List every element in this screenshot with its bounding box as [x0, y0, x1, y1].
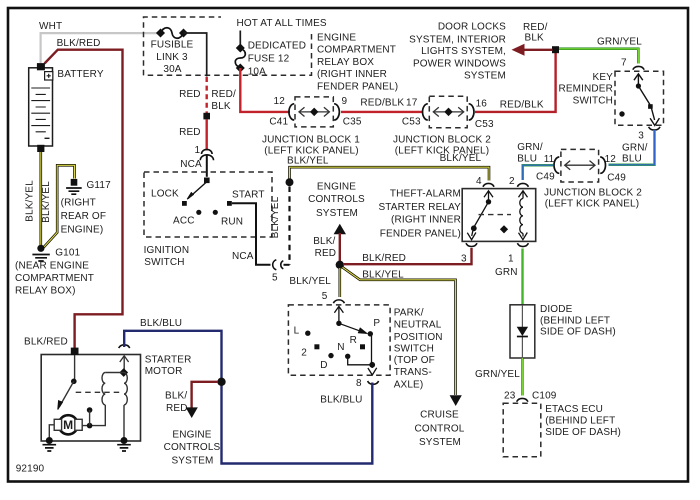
label (RIGHT REAR OF ENGINE)	[61, 198, 107, 236]
wire RED/BLK junction block 1 to junction block 2	[341, 111, 422, 113]
svg-text:COMPARTMENT: COMPARTMENT	[15, 273, 94, 284]
svg-text:NCA: NCA	[232, 251, 254, 262]
svg-text:BLK/YEL: BLK/YEL	[25, 180, 36, 222]
svg-text:P: P	[373, 318, 380, 329]
label RED/BLK (fuse drop)	[211, 89, 236, 112]
label C41	[269, 117, 288, 128]
svg-text:REAR OF: REAR OF	[61, 211, 107, 222]
svg-text:KEY: KEY	[593, 72, 614, 83]
splice node on RED wire	[203, 113, 210, 120]
svg-text:CONTROLS: CONTROLS	[308, 194, 365, 205]
junction block 2 C49	[554, 149, 605, 182]
label M (motor)	[63, 418, 73, 432]
label BLK/YEL (rotated, G117 wire)	[41, 181, 52, 223]
svg-text:DOOR LOCKS: DOOR LOCKS	[438, 21, 506, 32]
svg-text:ENGINE: ENGINE	[172, 429, 211, 440]
wire BLK/YEL dashed to connector 5	[288, 187, 290, 265]
label DIODE (BEHIND LEFT SIDE OF DASH)	[540, 304, 616, 337]
svg-text:RELAY BOX): RELAY BOX)	[15, 285, 76, 296]
svg-text:RED: RED	[179, 127, 201, 138]
svg-text:BLK/BLU: BLK/BLU	[140, 318, 182, 329]
wire WHT battery to fusible link	[41, 33, 161, 63]
label BLK/RED (top)	[57, 38, 101, 49]
wire BLK/YEL node to cruise control system	[343, 267, 456, 395]
label R	[350, 335, 357, 346]
label (NEAR ENGINE COMPARTMENT RELAY BOX)	[15, 260, 94, 296]
ignition switch	[144, 172, 272, 237]
label C53 (right)	[475, 119, 494, 130]
svg-text:4: 4	[476, 176, 482, 187]
label WHT	[39, 21, 62, 32]
label ACC	[173, 215, 195, 226]
svg-text:M: M	[63, 418, 73, 432]
wire BLK/RED node to theft-alarm relay pin 3	[343, 248, 472, 264]
svg-text:BLK: BLK	[525, 33, 545, 44]
svg-text:IGNITION: IGNITION	[144, 245, 190, 256]
svg-text:3: 3	[638, 131, 644, 142]
label BLK/BLU (below P/N switch)	[320, 395, 362, 406]
label 3 (pin)	[638, 131, 644, 142]
svg-text:FENDER PANEL): FENDER PANEL)	[380, 228, 461, 239]
label 12 (pin)	[274, 96, 286, 107]
svg-text:RUN: RUN	[221, 216, 243, 227]
wire GRN/YEL node to key reminder switch pin 7	[559, 49, 638, 64]
svg-text:CONTROLS: CONTROLS	[164, 442, 221, 453]
svg-text:SIDE OF DASH): SIDE OF DASH)	[545, 427, 621, 438]
label 7 (pin)	[621, 58, 627, 69]
wire RED solid segment	[205, 119, 207, 150]
label ENGINE COMPARTMENT RELAY BOX (RIGHT INNER FENDER PANEL)	[317, 32, 398, 92]
starter motor	[41, 345, 140, 441]
svg-text:C109: C109	[532, 390, 557, 401]
label PARK/ NEUTRAL POSITION SWITCH (TOP OF TRANS-AXLE)	[394, 307, 443, 390]
svg-text:L: L	[294, 326, 300, 337]
svg-text:FENDER PANEL): FENDER PANEL)	[317, 81, 398, 92]
svg-text:BLK: BLK	[211, 101, 231, 112]
svg-text:BLU: BLU	[622, 153, 642, 164]
svg-text:BLK/YEL: BLK/YEL	[289, 276, 331, 287]
svg-text:POSITION: POSITION	[394, 332, 443, 343]
label JUNCTION BLOCK 2 (LEFT KICK PANEL)	[393, 134, 491, 156]
label FUSIBLE LINK 3 30A	[151, 40, 194, 76]
svg-text:CRUISE: CRUISE	[420, 409, 459, 420]
svg-text:THEFT-ALARM: THEFT-ALARM	[390, 188, 461, 199]
svg-text:R: R	[350, 335, 357, 346]
node BLK/RED BLK/YEL junction	[336, 261, 344, 269]
wire BLK/YEL node to park/neutral switch pin 5	[338, 268, 341, 297]
svg-text:10A: 10A	[248, 67, 266, 78]
svg-text:1: 1	[508, 253, 514, 264]
svg-text:BATTERY: BATTERY	[57, 69, 103, 80]
svg-text:NCA: NCA	[180, 159, 202, 170]
wire GRN/BLU C49 to theft-alarm relay pin 2	[523, 165, 554, 180]
label 23 (pin)	[504, 390, 516, 401]
svg-text:LOCK: LOCK	[151, 188, 179, 199]
svg-text:7: 7	[621, 58, 627, 69]
label GRN/YEL	[597, 36, 642, 47]
label BLK/YEL (rotated, battery wire)	[25, 180, 36, 222]
node BLK/YEL junction at engine controls	[286, 178, 294, 186]
label STARTER MOTOR	[145, 354, 192, 377]
wire GRN/YEL diode to ETACS C109	[521, 358, 523, 396]
svg-text:JUNCTION BLOCK 1: JUNCTION BLOCK 1	[262, 134, 360, 145]
svg-text:5: 5	[272, 273, 278, 284]
svg-text:JUNCTION BLOCK 2: JUNCTION BLOCK 2	[544, 188, 642, 199]
svg-text:5: 5	[322, 291, 328, 302]
svg-text:BLU: BLU	[517, 154, 537, 165]
svg-text:STARTER: STARTER	[145, 354, 192, 365]
label C35	[343, 117, 362, 128]
label 3 (relay pin)	[461, 253, 467, 264]
svg-text:9: 9	[342, 96, 348, 107]
connector 23 C109	[517, 398, 528, 401]
label 12 (C49 pin)	[605, 154, 617, 165]
label BLK/ RED (mid)	[313, 236, 336, 259]
svg-text:RED: RED	[166, 403, 188, 414]
svg-text:SWITCH: SWITCH	[573, 96, 613, 107]
label RED (upper)	[179, 89, 201, 100]
label CRUISE CONTROL SYSTEM	[415, 409, 465, 448]
svg-text:WHT: WHT	[39, 21, 62, 32]
ground at starter motor right	[117, 437, 131, 451]
svg-text:GRN/: GRN/	[622, 142, 648, 153]
label L	[294, 326, 300, 337]
svg-text:HOT AT ALL TIMES: HOT AT ALL TIMES	[237, 18, 327, 29]
junction block 1 C41/C35	[289, 97, 339, 127]
label GRN/ BLU (left of C49)	[517, 142, 543, 165]
svg-text:C49: C49	[536, 171, 555, 182]
svg-text:NEUTRAL: NEUTRAL	[394, 319, 442, 330]
svg-text:D: D	[320, 360, 327, 371]
svg-text:BLK/YEL: BLK/YEL	[440, 153, 482, 164]
svg-text:17: 17	[406, 98, 418, 109]
svg-text:BLK/: BLK/	[313, 236, 335, 247]
svg-text:C49: C49	[607, 173, 626, 184]
svg-text:AXLE): AXLE)	[394, 380, 424, 391]
svg-text:SYSTEM: SYSTEM	[171, 455, 213, 466]
svg-text:GRN/YEL: GRN/YEL	[475, 369, 520, 380]
svg-text:SYSTEM, INTERIOR: SYSTEM, INTERIOR	[409, 34, 506, 45]
svg-text:RED/BLK: RED/BLK	[500, 99, 544, 110]
label ETACS ECU (BEHIND LEFT SIDE OF DASH)	[545, 404, 621, 438]
diode	[510, 305, 535, 358]
svg-text:(TOP OF: (TOP OF	[394, 355, 435, 366]
svg-text:23: 23	[504, 390, 516, 401]
svg-text:GRN: GRN	[495, 267, 518, 278]
svg-text:(RIGHT INNER: (RIGHT INNER	[391, 214, 461, 225]
key reminder switch	[615, 66, 664, 130]
svg-text:START: START	[232, 189, 265, 200]
svg-text:BLK/RED: BLK/RED	[362, 253, 406, 264]
label 11 (C49 pin)	[544, 154, 555, 165]
svg-text:TRANS-: TRANS-	[394, 367, 432, 378]
svg-text:GRN/YEL: GRN/YEL	[597, 36, 642, 47]
label G117	[87, 180, 112, 191]
svg-text:ENGINE: ENGINE	[317, 182, 356, 193]
svg-text:RED/BLK: RED/BLK	[360, 98, 404, 109]
label C49 (right)	[607, 173, 626, 184]
svg-text:2: 2	[509, 176, 515, 187]
svg-text:(BEHIND LEFT: (BEHIND LEFT	[545, 415, 615, 426]
label BLK/YEL (bus left)	[287, 156, 329, 167]
label ENGINE CONTROLS SYSTEM (lower)	[164, 429, 221, 466]
svg-text:SIDE OF DASH): SIDE OF DASH)	[540, 326, 616, 337]
label ENGINE CONTROLS SYSTEM (upper)	[308, 182, 365, 220]
ground G117	[66, 179, 82, 194]
svg-text:BLK/YEL: BLK/YEL	[287, 156, 329, 167]
svg-text:2: 2	[301, 348, 307, 359]
label IGNITION SWITCH	[144, 245, 190, 268]
svg-text:MOTOR: MOTOR	[145, 366, 183, 377]
label 5 (P/N pin)	[322, 291, 328, 302]
connector 1 at ignition switch	[200, 149, 213, 176]
label BLK/YEL (rotated, dashed wire)	[270, 196, 281, 238]
svg-text:ENGINE): ENGINE)	[61, 224, 104, 235]
label NCA (lower)	[232, 251, 254, 262]
svg-text:(BEHIND LEFT: (BEHIND LEFT	[540, 315, 610, 326]
svg-text:BLK/: BLK/	[165, 390, 187, 401]
wire BLK/YEL G117 to G101	[44, 165, 75, 247]
label HOT AT ALL TIMES	[237, 18, 327, 29]
svg-text:RED/: RED/	[211, 89, 236, 100]
wire fusible link to RED drop	[184, 33, 207, 77]
label NCA (upper)	[180, 159, 202, 170]
theft-alarm starter relay	[462, 183, 536, 246]
svg-text:C53: C53	[402, 117, 421, 128]
svg-text:11: 11	[544, 154, 555, 165]
svg-text:(RIGHT: (RIGHT	[61, 198, 96, 209]
wire BLK/YEL battery negative to G101	[39, 152, 42, 246]
svg-text:JUNCTION BLOCK 2: JUNCTION BLOCK 2	[393, 134, 491, 145]
svg-text:RED: RED	[315, 248, 337, 259]
svg-text:3: 3	[461, 253, 467, 264]
node BLK/BLU junction to engine controls	[217, 378, 225, 386]
svg-text:C41: C41	[269, 117, 288, 128]
svg-text:92190: 92190	[16, 464, 45, 475]
label RED/BLK (right)	[500, 99, 544, 110]
svg-text:(LEFT KICK PANEL): (LEFT KICK PANEL)	[545, 198, 639, 209]
fusible link 3	[156, 28, 188, 39]
arrow down to cruise control system	[450, 395, 462, 406]
svg-text:PARK/: PARK/	[394, 307, 424, 318]
svg-text:POWER WINDOWS: POWER WINDOWS	[413, 58, 506, 69]
svg-text:SYSTEM: SYSTEM	[464, 70, 506, 81]
label GRN/YEL (lower)	[475, 369, 520, 380]
label BLK/RED (to relay pin 3)	[362, 253, 406, 264]
label RED (lower)	[179, 127, 201, 138]
label G101	[55, 248, 80, 259]
label GRN/ BLU (right of C49)	[622, 142, 648, 164]
label GRN	[495, 267, 518, 278]
label P	[373, 318, 380, 329]
wire RED dashed segment	[205, 77, 207, 113]
label 16 (pin)	[476, 98, 488, 109]
ground G101	[32, 245, 49, 261]
svg-text:FUSIBLE: FUSIBLE	[151, 40, 194, 51]
label 1 (relay pin)	[508, 253, 514, 264]
label 92190	[16, 464, 45, 475]
label BATTERY	[57, 69, 103, 80]
label C109	[532, 390, 557, 401]
label KEY REMINDER SWITCH	[558, 72, 613, 106]
svg-text:12: 12	[274, 96, 286, 107]
svg-text:COMPARTMENT: COMPARTMENT	[317, 45, 396, 56]
ground at starter motor left	[43, 437, 57, 451]
label JUNCTION BLOCK 1 (LEFT KICK PANEL)	[262, 134, 360, 156]
label RUN	[221, 216, 243, 227]
svg-text:ETACS ECU: ETACS ECU	[545, 404, 603, 415]
wire BLK/RED stub to engine controls system	[192, 382, 218, 408]
label RED/BLK (mid bus)	[360, 98, 404, 109]
svg-text:16: 16	[476, 98, 488, 109]
label START	[232, 189, 265, 200]
label BLK/RED (at starter)	[24, 337, 68, 348]
label DEDICATED FUSE 12 10A	[248, 41, 306, 78]
connector 5 inline	[273, 260, 290, 270]
svg-text:DIODE: DIODE	[540, 304, 573, 315]
wire RED/BLK junction block 2 to key reminder node	[475, 51, 556, 112]
svg-text:BLK/RED: BLK/RED	[57, 38, 101, 49]
wire BLK/YEL bus junction blocks to theft-alarm relay pin 4	[290, 167, 490, 182]
fusible link box (HOT AT ALL TIMES)	[144, 17, 312, 75]
svg-text:GRN/: GRN/	[517, 142, 543, 153]
wire GRN relay pin 1 to diode	[521, 249, 523, 306]
node RED/BLK junction	[552, 46, 559, 53]
svg-text:RED/: RED/	[523, 22, 548, 33]
svg-text:FUSE 12: FUSE 12	[248, 54, 290, 65]
wire RED/BLK fuse to junction block 1	[240, 68, 290, 112]
svg-text:BLK/YEL: BLK/YEL	[362, 270, 404, 281]
label 1 (pin)	[195, 145, 201, 156]
svg-text:ENGINE: ENGINE	[317, 32, 356, 43]
label N	[337, 342, 344, 353]
label 8 (P/N pin)	[356, 378, 362, 389]
label 4 (relay pin)	[476, 176, 482, 187]
svg-text:8: 8	[356, 378, 362, 389]
label C49 (left)	[536, 171, 555, 182]
label D	[320, 360, 327, 371]
label LOCK	[151, 188, 179, 199]
label C53 (left)	[402, 117, 421, 128]
svg-text:STARTER RELAY: STARTER RELAY	[378, 202, 461, 213]
svg-text:30A: 30A	[163, 64, 181, 75]
svg-text:LINK 3: LINK 3	[156, 52, 188, 63]
svg-text:BLK/YEL: BLK/YEL	[41, 181, 52, 223]
arrow to door locks systems	[512, 44, 553, 56]
label JUNCTION BLOCK 2 (LEFT KICK PANEL) at C49	[544, 188, 642, 210]
junction block 2 C53/C53	[423, 96, 474, 128]
wire BLK/BLU starter motor to park/neutral pin 8	[124, 331, 372, 464]
svg-text:BLK/RED: BLK/RED	[24, 337, 68, 348]
label 5 (connector)	[272, 273, 278, 284]
svg-text:SYSTEM: SYSTEM	[419, 437, 461, 448]
svg-text:C35: C35	[343, 117, 362, 128]
label DOOR LOCKS SYSTEM, INTERIOR LIGHTS SYSTEM, POWER WINDOWS SYSTEM	[409, 21, 506, 81]
wire BLK/RED battery to starter motor	[45, 50, 123, 349]
svg-text:G101: G101	[55, 248, 80, 259]
wire GRN/BLU key switch pin 3 to junction block C49	[609, 130, 655, 165]
svg-text:1: 1	[195, 145, 201, 156]
svg-text:REMINDER: REMINDER	[558, 84, 613, 95]
label RED/ BLK (arrow)	[523, 22, 548, 44]
ETACS ECU box	[503, 403, 541, 457]
svg-text:(RIGHT INNER: (RIGHT INNER	[317, 69, 387, 80]
svg-text:C53: C53	[475, 119, 494, 130]
label 2 (relay pin)	[509, 176, 515, 187]
svg-text:LIGHTS SYSTEM,: LIGHTS SYSTEM,	[421, 46, 506, 57]
svg-text:RELAY BOX: RELAY BOX	[317, 57, 374, 68]
label BLK/YEL (to cruise)	[362, 270, 404, 281]
arrow down to engine controls system (lower)	[186, 407, 198, 418]
svg-text:DEDICATED: DEDICATED	[248, 41, 306, 52]
label BLK/BLU (top)	[140, 318, 182, 329]
label BLK/ RED (lower)	[165, 390, 188, 414]
dedicated fuse 12	[235, 31, 245, 73]
svg-text:SWITCH: SWITCH	[394, 343, 434, 354]
svg-text:SYSTEM: SYSTEM	[316, 208, 358, 219]
svg-text:SWITCH: SWITCH	[144, 257, 184, 268]
svg-text:CONTROL: CONTROL	[415, 423, 465, 434]
wire ignition START to NCA connector 5	[232, 203, 271, 264]
svg-text:N: N	[337, 342, 344, 353]
park/neutral position switch	[288, 300, 390, 384]
label 2	[301, 348, 307, 359]
svg-text:G117: G117	[87, 180, 112, 191]
svg-text:BLK/BLU: BLK/BLU	[320, 395, 362, 406]
svg-text:RED: RED	[179, 89, 201, 100]
label 9 (pin)	[342, 96, 348, 107]
label 17 (pin)	[406, 98, 418, 109]
svg-text:12: 12	[605, 154, 617, 165]
svg-text:ACC: ACC	[173, 215, 195, 226]
battery	[29, 63, 53, 152]
svg-text:BLK/YEL: BLK/YEL	[270, 196, 281, 238]
arrow up to engine controls system	[334, 224, 346, 265]
label BLK/YEL (at connector 5)	[289, 276, 331, 287]
svg-text:(NEAR ENGINE: (NEAR ENGINE	[15, 260, 89, 271]
label THEFT-ALARM STARTER RELAY (RIGHT INNER FENDER PANEL)	[378, 188, 461, 239]
label BLK/YEL (bus right)	[440, 153, 482, 164]
